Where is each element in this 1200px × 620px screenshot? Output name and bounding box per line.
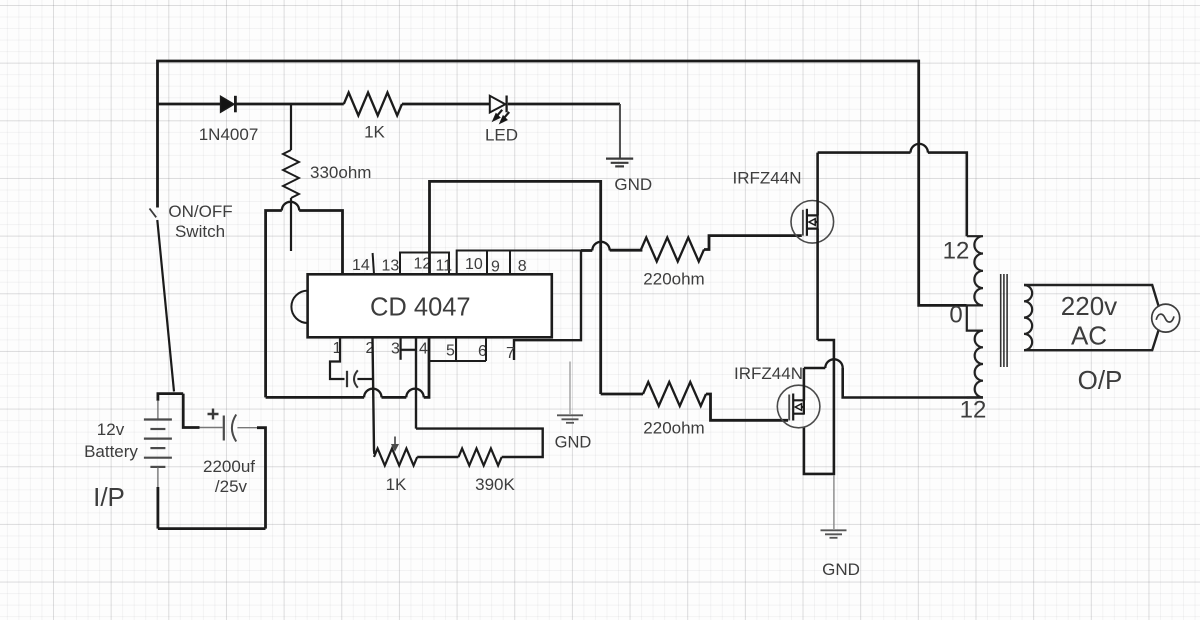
ground symbol pin 7: [557, 415, 583, 423]
wire bottom rail of battery loop: [158, 527, 266, 530]
wire diode to 1K with junction to 330ohm: [235, 103, 343, 106]
wire bottom rail of left loop with hops: [266, 396, 365, 399]
wire 220ohm to Q1 gate: [704, 236, 802, 250]
pin 3 stub and link: [401, 338, 416, 360]
LED D2: [490, 96, 509, 124]
transistor Q2 IRFZ44N (bottom MOSFET): [777, 368, 820, 428]
svg-text:O/P: O/P: [1078, 365, 1123, 395]
output loop 220v AC hexagon: [1024, 285, 1159, 350]
wire 1K to 390K: [417, 456, 458, 458]
wire capacitor to bottom rail: [237, 428, 265, 529]
svg-text:1K: 1K: [386, 475, 407, 494]
hop arc over pin11 riser: [592, 242, 609, 251]
wire Q1 source down to ground node: [804, 340, 834, 474]
resistor R4 1K timing: [374, 449, 417, 466]
hop arc over pin4 wire: [406, 389, 423, 398]
svg-text:390K: 390K: [475, 475, 515, 494]
resistor R2 1K: [344, 93, 402, 116]
svg-text:12: 12: [960, 397, 987, 424]
svg-text:14: 14: [352, 257, 370, 274]
wire LED to ground: [508, 103, 620, 106]
svg-text:/25v: /25v: [215, 477, 248, 496]
wire rail between hops: [382, 396, 407, 399]
svg-text:0: 0: [949, 302, 962, 329]
transformer T1 primary lower winding: [967, 305, 983, 397]
wire hop to 220ohm top: [610, 248, 641, 251]
hop arc over pin2 wire: [364, 389, 381, 398]
resistor R6 220ohm top: [641, 238, 704, 262]
wire 1K to LED: [402, 103, 490, 106]
pin 10/9/8 boxes: [457, 251, 581, 275]
svg-text:ON/OFF: ON/OFF: [168, 202, 232, 221]
svg-text:IRFZ44N: IRFZ44N: [733, 169, 802, 188]
svg-text:AC: AC: [1071, 321, 1107, 351]
pin 4 wire: [415, 338, 417, 429]
svg-text:7: 7: [506, 345, 515, 362]
svg-text:9: 9: [491, 259, 500, 276]
svg-text:13: 13: [382, 258, 400, 275]
svg-text:220v: 220v: [1061, 291, 1117, 321]
wire 330ohm branch from diode row: [290, 104, 292, 150]
svg-text:IRFZ44N: IRFZ44N: [734, 364, 803, 383]
resistor R7 220ohm bottom: [643, 382, 706, 406]
wire 390K up and left to pin 4: [416, 429, 543, 457]
svg-text:1K: 1K: [364, 123, 385, 142]
switch S1 ON/OFF: [150, 209, 175, 392]
svg-text:Switch: Switch: [175, 222, 225, 241]
ground symbol top (LED): [606, 159, 633, 167]
hop arc over 330ohm wire: [282, 202, 299, 211]
svg-text:LED: LED: [485, 126, 518, 145]
resistor R5 390K: [459, 449, 502, 466]
svg-text:220ohm: 220ohm: [643, 270, 704, 289]
wire pin 10 row to hop: [581, 249, 592, 252]
ground symbol bottom: [821, 530, 847, 538]
pin 13 stub: [373, 253, 374, 274]
pin 12/11 box: [400, 253, 449, 275]
transformer T1 core: [1001, 274, 1007, 367]
pin 1 wire to timing capacitor: [330, 338, 345, 379]
svg-text:8: 8: [518, 258, 527, 275]
wire battery negative lead: [157, 468, 159, 529]
capacitor C1 timing: [347, 370, 373, 387]
svg-text:4: 4: [419, 341, 428, 358]
wire rail to pin5 riser: [424, 338, 429, 397]
diode D1 1N4007: [221, 96, 236, 113]
wiper arrow over 1K: [392, 437, 398, 451]
AC source circle: [1152, 304, 1180, 332]
pin numbers top row: [333, 256, 527, 363]
svg-text:12: 12: [943, 238, 970, 265]
svg-text:220ohm: 220ohm: [643, 419, 704, 438]
svg-text:2200uf: 2200uf: [203, 457, 255, 476]
wire 220ohm to Q2 gate: [706, 394, 788, 420]
pin 8 riser to pin 7 shelf: [514, 251, 581, 361]
wire Q2 drain to transformer bottom with hop: [804, 359, 983, 397]
svg-text:GND: GND: [614, 175, 652, 194]
svg-text:5: 5: [446, 343, 455, 360]
wire loop to pin 14: [299, 211, 342, 275]
svg-text:3: 3: [391, 341, 400, 358]
transformer T1 primary upper winding: [967, 236, 983, 305]
wire top supply rail from battery rail to transformer 0 tap: [158, 61, 967, 305]
wire Q1 drain to transformer top with hop: [818, 144, 967, 236]
wire pin14 loop with hop gap: [266, 211, 282, 398]
transformer T1 secondary winding: [1024, 285, 1032, 350]
transistor Q1 IRFZ44N (top MOSFET): [791, 153, 834, 340]
wire diode row left segment: [158, 103, 221, 106]
svg-text:CD 4047: CD 4047: [370, 294, 471, 322]
capacitor C2 2200uf plates: [208, 409, 237, 442]
svg-text:10: 10: [465, 256, 483, 273]
svg-text:330ohm: 330ohm: [310, 163, 371, 182]
pin 5/6 boxes: [429, 338, 486, 361]
wire Q2 gate row from pin11 riser: [601, 393, 643, 396]
svg-text:1N4007: 1N4007: [199, 125, 259, 144]
svg-text:Battery: Battery: [84, 442, 138, 461]
wire switch to battery and capacitor (step box): [158, 394, 223, 428]
ground lead pin 7: [569, 362, 571, 415]
pin 2 wire down to 1K: [373, 338, 375, 454]
svg-text:12v: 12v: [97, 420, 125, 439]
wire pin 11 loop over IC to lower gate: [430, 181, 601, 394]
resistor R3 330ohm: [283, 150, 299, 198]
op IC U1 CD4047 body: [291, 274, 551, 337]
svg-text:GND: GND: [555, 434, 592, 452]
svg-text:GND: GND: [822, 560, 860, 579]
svg-text:I/P: I/P: [93, 482, 125, 512]
svg-text:11: 11: [436, 258, 453, 275]
wire 330ohm tail through hop: [290, 198, 292, 251]
battery B1 12v: [144, 420, 172, 467]
ground lead bottom: [833, 475, 835, 529]
